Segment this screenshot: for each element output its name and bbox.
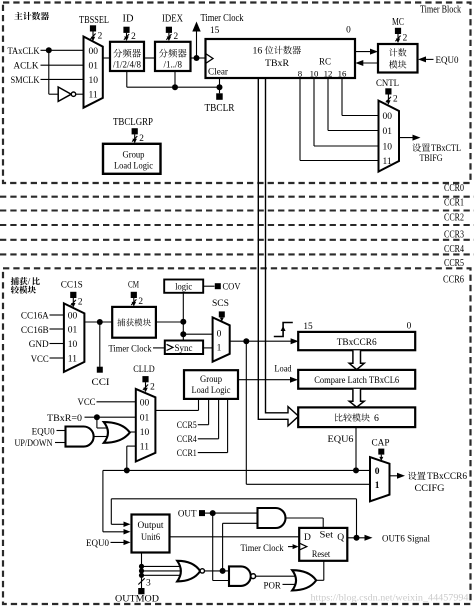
svg-text:CM: CM bbox=[128, 280, 139, 291]
svg-text:00: 00 bbox=[140, 399, 150, 409]
wire D line (output unit to FF) bbox=[170, 536, 300, 538]
wire CC16A bbox=[50, 314, 64, 316]
wire CAP mux out bbox=[390, 475, 402, 477]
wire EQU0 into count module bbox=[421, 58, 434, 60]
svg-text:Group: Group bbox=[123, 151, 145, 161]
svg-text:2: 2 bbox=[403, 33, 408, 43]
comparator box (Chinese compare module 6) bbox=[298, 407, 415, 427]
control TBCLGRP 2 bbox=[132, 128, 138, 134]
svg-text:01: 01 bbox=[68, 325, 78, 335]
Output Unit6 box bbox=[132, 515, 170, 553]
wire EQU6 net bbox=[355, 427, 357, 470]
wire TBxR=0 bbox=[85, 416, 136, 418]
wire EQU6 into CLLD input 11 bbox=[127, 445, 136, 447]
svg-text:0: 0 bbox=[375, 467, 380, 477]
label capture/compare module (Chinese) bbox=[11, 277, 19, 285]
svg-text:TBSSEL: TBSSEL bbox=[79, 15, 109, 26]
wire OR to FF Reset bbox=[316, 579, 324, 581]
wire OUT to AND bbox=[213, 512, 258, 514]
logic box bbox=[164, 280, 203, 293]
TBxR bus lines to comparator 6 bbox=[258, 78, 298, 426]
CCR5 separator dashed line bbox=[0, 253, 474, 255]
svg-text:Timer Clock: Timer Clock bbox=[241, 543, 284, 554]
svg-text:CCI: CCI bbox=[92, 377, 110, 388]
TBCLR terminal bbox=[216, 93, 223, 100]
wire logic drop / capture out bbox=[182, 293, 184, 341]
svg-text:CAP: CAP bbox=[372, 437, 390, 448]
svg-text:TBxR: TBxR bbox=[265, 58, 289, 69]
wire Q output bbox=[347, 537, 356, 539]
svg-text:TBCLR: TBCLR bbox=[205, 103, 235, 114]
svg-text:SMCLK: SMCLK bbox=[11, 75, 40, 86]
svg-text:Unit6: Unit6 bbox=[141, 533, 160, 543]
svg-text:01: 01 bbox=[383, 127, 393, 137]
counter module box (Chinese) bbox=[378, 44, 418, 73]
wire AND out to FF Set bbox=[286, 517, 324, 519]
OR gate (reset) bbox=[292, 570, 316, 590]
Group Load Logic box (lower) bbox=[184, 370, 238, 399]
control IDEX 2 bbox=[166, 27, 172, 33]
svg-text:CCR6: CCR6 bbox=[443, 275, 464, 286]
svg-text:2: 2 bbox=[98, 31, 103, 41]
svg-text:SCS: SCS bbox=[212, 298, 229, 309]
svg-text:Output: Output bbox=[138, 521, 164, 531]
svg-text:OUT6 Signal: OUT6 Signal bbox=[382, 534, 430, 545]
wire IDEX to counter bbox=[191, 57, 206, 59]
control CM 2 bbox=[131, 292, 137, 298]
svg-text:CCR5: CCR5 bbox=[444, 258, 464, 269]
svg-text:10: 10 bbox=[89, 76, 99, 86]
wires RC taps to CNTL mux bbox=[341, 78, 343, 116]
wire SMCLK bbox=[41, 78, 84, 80]
svg-text:Reset: Reset bbox=[312, 550, 331, 560]
svg-text:2: 2 bbox=[150, 382, 155, 392]
svg-text:IDEX: IDEX bbox=[162, 13, 184, 24]
control TBSSEL 2 bbox=[90, 25, 96, 31]
svg-text:Set: Set bbox=[320, 531, 334, 541]
wire CC16B bbox=[50, 328, 64, 330]
svg-text:CCR2: CCR2 bbox=[444, 212, 464, 223]
wire TAxCLK bbox=[41, 49, 84, 51]
SCS control bbox=[219, 311, 225, 317]
Sync box bbox=[165, 341, 203, 355]
mux TBSSEL bbox=[84, 37, 103, 108]
svg-text:11: 11 bbox=[68, 354, 77, 364]
svg-text:Load Logic: Load Logic bbox=[192, 386, 231, 396]
svg-text:15: 15 bbox=[303, 322, 313, 332]
OUTMOD terminal bbox=[138, 588, 144, 594]
NOR gate (OUTMOD=0) bbox=[177, 561, 200, 582]
svg-text:CCR5: CCR5 bbox=[177, 420, 197, 431]
svg-text:CCR3: CCR3 bbox=[444, 229, 464, 240]
svg-text:Sync: Sync bbox=[175, 344, 193, 354]
svg-text:2: 2 bbox=[139, 134, 144, 144]
svg-text:0: 0 bbox=[346, 25, 351, 35]
svg-text:EQU6: EQU6 bbox=[328, 434, 354, 445]
control CCIS 2 bbox=[70, 292, 76, 298]
svg-text:10: 10 bbox=[310, 69, 319, 79]
svg-text:CCR1: CCR1 bbox=[444, 197, 464, 208]
mux CNTL bbox=[379, 101, 400, 172]
svg-text:Load: Load bbox=[274, 365, 292, 375]
wire EQU6 to output unit bbox=[102, 470, 104, 531]
svg-text:COV: COV bbox=[223, 282, 241, 293]
wire NOR out bbox=[205, 570, 230, 572]
CCR4 separator dashed line bbox=[0, 239, 474, 241]
control MC 2 bbox=[395, 28, 401, 34]
label set TBxCCR6 CCIFG bbox=[408, 472, 417, 480]
hollow arrow TBxCCR6 to latch bbox=[349, 350, 364, 369]
wire CCIS mux out to capture module bbox=[84, 321, 112, 323]
wire CCR4 bbox=[218, 399, 220, 439]
inverter bbox=[58, 87, 71, 101]
svg-text:8: 8 bbox=[298, 69, 303, 79]
CCI tap bbox=[99, 322, 101, 367]
wire NOR out up to AND bbox=[222, 523, 224, 571]
mux CAP bbox=[370, 457, 390, 501]
svg-text:UP/DOWN: UP/DOWN bbox=[15, 439, 53, 449]
NAND gate bbox=[229, 566, 251, 586]
svg-text:CLLD: CLLD bbox=[133, 364, 155, 375]
wire CCR5 bbox=[208, 399, 210, 425]
wire Sync to SCS mux input 1 bbox=[203, 347, 213, 349]
svg-text:01: 01 bbox=[140, 413, 150, 423]
svg-text:2: 2 bbox=[174, 32, 179, 42]
svg-text:Timer Clock: Timer Clock bbox=[109, 344, 152, 355]
svg-text:1: 1 bbox=[375, 481, 380, 491]
svg-text:TBxCCR6: TBxCCR6 bbox=[337, 337, 377, 348]
svg-text:EQU0: EQU0 bbox=[86, 538, 109, 549]
svg-text:Group: Group bbox=[200, 375, 222, 385]
svg-text:10: 10 bbox=[140, 428, 150, 438]
wire POR to OR bbox=[283, 583, 297, 585]
svg-text:15: 15 bbox=[210, 26, 220, 36]
CCR6 section dashed border bbox=[3, 268, 471, 604]
svg-text:Timer Block: Timer Block bbox=[420, 5, 461, 16]
svg-text:00: 00 bbox=[68, 311, 78, 321]
svg-text:CC1S: CC1S bbox=[61, 280, 83, 291]
wires into AND gate bbox=[57, 430, 66, 432]
OR gate (CLLD input 10) bbox=[104, 422, 130, 443]
divider box ID bbox=[110, 42, 144, 71]
wire CLLD mux out to group load logic bbox=[155, 409, 198, 411]
svg-text:/: / bbox=[28, 277, 31, 287]
wire ACLK bbox=[41, 64, 84, 66]
wire OUTMOD net bbox=[141, 553, 143, 589]
wire SCS mux out to TBxCCR6 (capture) bbox=[230, 340, 296, 342]
hollow arrow latch to comparator bbox=[349, 389, 364, 407]
svg-text:10: 10 bbox=[68, 340, 78, 350]
register box Compare Latch TBxCL6 bbox=[298, 370, 415, 389]
svg-text:GND: GND bbox=[29, 339, 49, 350]
CAP control bbox=[378, 449, 384, 455]
svg-text:VCC: VCC bbox=[78, 397, 96, 408]
svg-text:RC: RC bbox=[319, 57, 331, 68]
control ID 2 bbox=[123, 27, 129, 33]
wire AND to OR bbox=[94, 436, 107, 438]
svg-text:Load Logic: Load Logic bbox=[114, 162, 153, 172]
wire NAND to OR bbox=[256, 575, 295, 577]
svg-text:11: 11 bbox=[89, 90, 98, 100]
edge symbol bbox=[274, 323, 293, 337]
svg-text:/1../8: /1../8 bbox=[163, 59, 182, 69]
wire Timer Clock to Sync bbox=[153, 347, 165, 349]
Group Load Logic box (top) bbox=[103, 144, 161, 174]
wire divider ID to IDEX bbox=[144, 57, 155, 59]
svg-text:CC16B: CC16B bbox=[21, 325, 49, 336]
svg-text:VCC: VCC bbox=[31, 354, 49, 365]
svg-text:CCIFG: CCIFG bbox=[415, 483, 445, 494]
wire OR out to CLLD mux bbox=[130, 431, 136, 433]
wire Load bbox=[238, 379, 295, 381]
wire OUT down to NAND bbox=[212, 513, 214, 580]
register box TBxCCR6 bbox=[298, 332, 415, 350]
16-bit counter box TBxR bbox=[206, 39, 356, 78]
OUT terminal bbox=[199, 510, 205, 516]
svg-text:2: 2 bbox=[138, 297, 143, 307]
mux SCS bbox=[213, 317, 230, 361]
svg-text:TBxCCR6: TBxCCR6 bbox=[427, 471, 467, 482]
svg-text:logic: logic bbox=[175, 283, 192, 293]
wire Q feedback to output unit bbox=[356, 499, 358, 538]
mux CLLD bbox=[136, 389, 156, 462]
wire CCR1 bbox=[227, 399, 229, 453]
svg-text:00: 00 bbox=[89, 47, 99, 57]
svg-text:ID: ID bbox=[123, 13, 134, 24]
CCR2 separator dashed line bbox=[0, 209, 474, 211]
wire EQU0 into output unit bbox=[111, 541, 128, 543]
svg-text:MC: MC bbox=[392, 17, 404, 28]
svg-text:CCR1: CCR1 bbox=[177, 448, 197, 459]
wire mux to divider ID bbox=[103, 57, 110, 59]
wire TBCLR net bbox=[219, 78, 221, 93]
svg-text:TBxR=0: TBxR=0 bbox=[47, 413, 82, 424]
label set TBxCTL TBIFG bbox=[412, 143, 421, 151]
label main counter (Chinese) bbox=[14, 12, 22, 20]
svg-text:6: 6 bbox=[374, 413, 379, 424]
svg-text:https://blog.csdn.net/weixin_4: https://blog.csdn.net/weixin_44457994 bbox=[311, 593, 469, 604]
svg-text:CC16A: CC16A bbox=[21, 311, 49, 322]
svg-text:16: 16 bbox=[253, 46, 263, 57]
wire inverter to mux bbox=[76, 93, 84, 95]
svg-text:2: 2 bbox=[393, 95, 398, 105]
svg-text:2: 2 bbox=[131, 32, 136, 42]
wire TAxCLK to inverter bbox=[48, 50, 50, 94]
CCR1 separator dashed line bbox=[0, 196, 474, 198]
svg-text:ACLK: ACLK bbox=[14, 61, 39, 72]
capture module box (Chinese) bbox=[112, 307, 156, 338]
wire VCC (CLLD) bbox=[97, 401, 136, 403]
wire counter to count module bbox=[355, 51, 375, 53]
svg-text:TBCLGRP: TBCLGRP bbox=[113, 117, 153, 128]
svg-text:Clear: Clear bbox=[208, 68, 229, 78]
svg-text:16: 16 bbox=[338, 69, 347, 79]
svg-text:Q: Q bbox=[337, 533, 344, 543]
Timer Block dashed border bbox=[3, 3, 471, 184]
svg-text:11: 11 bbox=[140, 442, 149, 452]
svg-text:TBIFG: TBIFG bbox=[420, 153, 443, 164]
svg-text:0: 0 bbox=[217, 329, 222, 339]
svg-text:OUT: OUT bbox=[178, 509, 197, 519]
svg-text:POR: POR bbox=[264, 581, 282, 591]
svg-text:D: D bbox=[304, 533, 311, 543]
svg-text:EQU0: EQU0 bbox=[32, 427, 55, 437]
wire capture signal down to CAP mux bbox=[245, 341, 247, 484]
svg-text:/1/2/4/8: /1/2/4/8 bbox=[113, 59, 142, 69]
Timer Clock tap bbox=[196, 31, 198, 58]
wire VCC bbox=[50, 357, 64, 359]
wire GND bbox=[50, 343, 64, 345]
AND gate (OUT,mode) bbox=[258, 508, 286, 528]
svg-text:3: 3 bbox=[146, 579, 151, 589]
svg-text:OUTMOD: OUTMOD bbox=[115, 593, 159, 604]
svg-text:2: 2 bbox=[78, 298, 83, 308]
wire to SCS mux input 0 bbox=[183, 333, 212, 335]
wire TBxR=0 branch to OR bbox=[96, 417, 98, 428]
svg-text:TAxCLK: TAxCLK bbox=[8, 46, 40, 57]
svg-text:Timer Clock: Timer Clock bbox=[201, 13, 244, 24]
counter clock triangle bbox=[206, 54, 214, 64]
svg-text:01: 01 bbox=[89, 62, 99, 72]
CCR3 separator dashed line bbox=[0, 224, 474, 226]
AND gate (EQU0,UP/DOWN) bbox=[66, 427, 94, 447]
mux CCIS bbox=[64, 303, 85, 372]
svg-text:CNTL: CNTL bbox=[376, 78, 399, 89]
svg-text:EQU0: EQU0 bbox=[436, 55, 459, 66]
control CNTL 2 bbox=[385, 88, 391, 94]
svg-text:11: 11 bbox=[383, 157, 392, 167]
svg-text:00: 00 bbox=[383, 112, 393, 122]
svg-text:Compare Latch TBxCL6: Compare Latch TBxCL6 bbox=[314, 375, 399, 386]
wire Timer Clock to FF bbox=[288, 546, 296, 548]
svg-text:0: 0 bbox=[407, 321, 412, 331]
svg-text:CCR0: CCR0 bbox=[444, 183, 464, 194]
flip-flop box bbox=[299, 528, 347, 561]
wire count module to counter bbox=[359, 62, 379, 64]
wire CNTL mux output bbox=[399, 137, 417, 139]
svg-text:1: 1 bbox=[217, 343, 222, 353]
svg-text:CCR4: CCR4 bbox=[177, 434, 197, 445]
control CLLD 2 bbox=[142, 376, 148, 382]
svg-text:12: 12 bbox=[324, 69, 333, 79]
svg-text:CCR4: CCR4 bbox=[444, 244, 464, 255]
svg-text:10: 10 bbox=[383, 142, 393, 152]
COV terminal bbox=[203, 285, 214, 287]
divider box IDEX bbox=[155, 42, 191, 71]
